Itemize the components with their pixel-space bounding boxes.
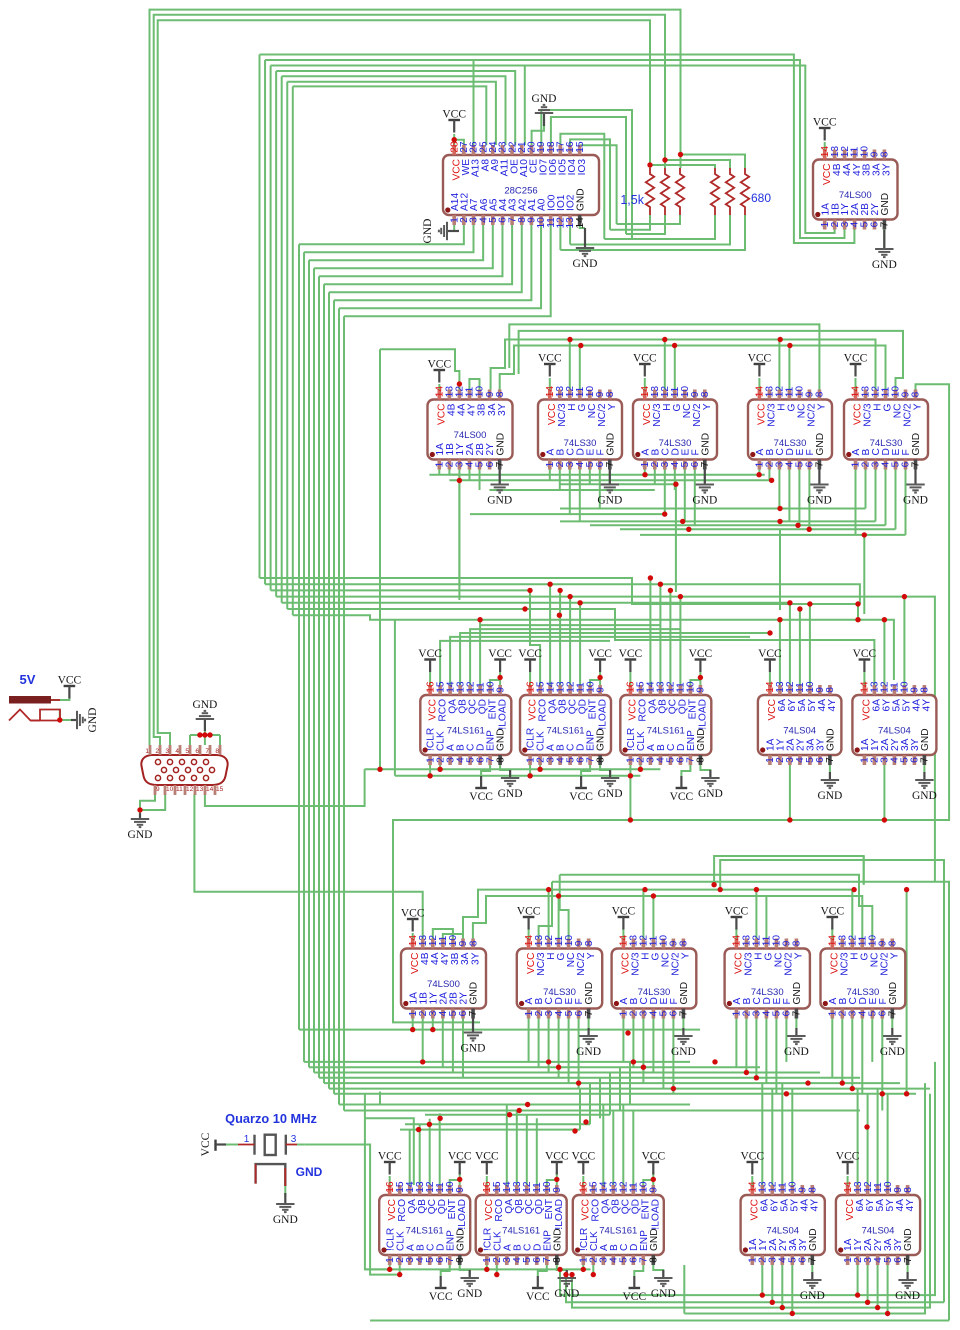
wire long vertical x380 (379, 349, 381, 769)
svg-text:9: 9 (455, 1187, 466, 1193)
wire VCC U10 pin16 (629, 672, 631, 685)
junction (648, 575, 653, 580)
junction (882, 617, 887, 622)
wire LS30 input drop (788, 470, 790, 522)
GND symbol below U14 (576, 1028, 601, 1058)
wire VCC to crystal pin1 (226, 1144, 238, 1146)
wire H branch (778, 340, 780, 390)
junction (662, 157, 667, 162)
wire pin7 to GND (499, 470, 501, 485)
GND symbol below U3 (487, 470, 512, 507)
wire bus line 7 (293, 615, 894, 680)
GND symbol below 161 (554, 1270, 579, 1300)
wire ROM pin7 cascade (324, 225, 512, 284)
junction (507, 1112, 512, 1117)
wire LS30 input drop (549, 470, 551, 481)
svg-text:VCC: VCC (448, 1151, 472, 1163)
junction (202, 732, 207, 737)
wire LS30 input drop (735, 1019, 737, 1068)
svg-text:VCC: VCC (619, 648, 643, 660)
junction (387, 1267, 392, 1272)
VCC symbol U11 (758, 648, 782, 672)
wire bundle vertical (264, 60, 266, 584)
svg-text:GND: GND (696, 728, 707, 751)
junction (672, 343, 677, 348)
junction (662, 511, 667, 516)
svg-text:74LS04: 74LS04 (862, 1226, 895, 1237)
wire LS30 input drop (765, 1019, 767, 1084)
junction (767, 630, 772, 635)
svg-text:8: 8 (825, 687, 836, 693)
junction (57, 717, 62, 722)
wire LS30 input drop (672, 1019, 674, 1094)
junction (882, 817, 887, 822)
wire ENP to VCC (441, 1265, 450, 1276)
wire VCC U9 pin9 (599, 672, 601, 685)
connector DB15 (141, 745, 227, 795)
junction (576, 1080, 581, 1085)
wire weave (640, 534, 906, 536)
svg-text:!LOAD: !LOAD (698, 699, 709, 730)
svg-text:GND: GND (903, 1228, 914, 1251)
svg-text:3Y: 3Y (470, 952, 481, 965)
wire CLK drop (439, 765, 441, 769)
wire U3 pin2 loop (449, 460, 459, 481)
GND symbol at 5V jack (71, 708, 99, 733)
resistor R3 (676, 168, 684, 215)
svg-text:74LS04: 74LS04 (783, 726, 816, 737)
wire LS30 input drop (885, 470, 887, 526)
wire (589, 1083, 591, 1124)
svg-text:VCC: VCC (378, 1151, 402, 1163)
svg-text:15: 15 (575, 141, 586, 153)
wire LS30 input drop (538, 1019, 540, 1068)
wire to U18 pin10 (450, 1180, 460, 1185)
wire ROM pin4 cascade (309, 225, 483, 260)
VCC symbol at U2 (813, 117, 837, 141)
GND symbol below U7 (903, 470, 928, 507)
junction (855, 1292, 860, 1297)
wire R2 bottom (626, 215, 665, 234)
junction (851, 887, 856, 892)
wire LS30 input drop (599, 470, 601, 509)
IC 74LS30 NAND gate 8 (821, 935, 906, 1019)
svg-text:GND: GND (128, 829, 153, 841)
svg-text:Quarzo 10 MHz: Quarzo 10 MHz (225, 1111, 317, 1126)
junction (581, 1267, 586, 1272)
junction (668, 588, 673, 593)
wire G bus (500, 346, 886, 390)
wire LS30 input drop (871, 1019, 873, 1062)
svg-text:8: 8 (495, 391, 506, 397)
svg-text:74LS161: 74LS161 (406, 1226, 444, 1237)
wire (599, 1078, 601, 1119)
junction (641, 1065, 646, 1070)
wire G branch (788, 346, 790, 390)
junction (850, 1086, 855, 1091)
wire ROM pin8 cascade (329, 225, 522, 292)
GND symbol above DB15 (192, 699, 217, 731)
junction (572, 1128, 577, 1133)
junction (784, 1091, 789, 1096)
VCC symbol U20 pin16 (571, 1151, 595, 1175)
svg-text:GND: GND (872, 259, 897, 271)
VCC symbol U18 pin16 (378, 1151, 402, 1175)
wire pin7 to GND (915, 470, 917, 485)
wire fan U8 QB (460, 633, 770, 685)
wire VCC to U2 pin14 (824, 142, 826, 150)
svg-text:VCC: VCC (740, 1151, 764, 1163)
wire NC2 bus upper (519, 331, 903, 390)
wire LS30 input drop (768, 470, 770, 481)
VCC symbol U9 pin9 (588, 648, 612, 672)
wire U13 pin5 (452, 1019, 454, 1073)
wire U13 pin4 (442, 1019, 444, 1068)
wire pin7 to GND (818, 470, 820, 485)
junction (522, 606, 527, 611)
wire to U19 pin10 (547, 1180, 557, 1185)
svg-text:GND: GND (422, 219, 434, 244)
VCC symbol at U3 (427, 359, 451, 383)
VCC symbol U20 pin9 (641, 1151, 665, 1175)
wire DB15 pin13 to U13 (194, 794, 422, 939)
wire (59, 710, 61, 720)
svg-text:Y: Y (913, 403, 924, 410)
svg-text:VCC: VCC (538, 353, 562, 365)
wire U22 2Y (877, 1265, 879, 1308)
wire (399, 1265, 401, 1275)
wire ROM pin10 cascade (339, 225, 541, 308)
wire (619, 1067, 621, 1110)
VCC symbol U8 pin9 (488, 648, 512, 672)
wire lower H bus (463, 890, 852, 939)
wire drop U19 (536, 1118, 538, 1185)
svg-text:GND: GND (273, 1214, 298, 1226)
junction (904, 1091, 909, 1096)
wire bus line 5 (282, 603, 790, 685)
svg-text:1: 1 (244, 1134, 250, 1145)
svg-text:7: 7 (903, 1257, 914, 1263)
GND symbol below 161 (598, 770, 623, 800)
junction (457, 381, 462, 386)
wire lower bus 3 left end (560, 875, 569, 939)
svg-text:74LS30: 74LS30 (564, 438, 597, 449)
svg-text:Y: Y (607, 403, 618, 410)
svg-text:VCC: VCC (836, 1151, 860, 1163)
junction (777, 506, 782, 511)
IC 74LS30 NAND gate 4 (844, 386, 928, 470)
wire weave (620, 528, 896, 530)
wire drop U19 (506, 1105, 508, 1186)
wire bus line to 74LS00 pin2 (271, 66, 835, 234)
IC 74LS30 NAND gate 5 (517, 935, 602, 1019)
junction (642, 472, 647, 477)
svg-text:GND: GND (596, 728, 607, 751)
wire jack sleeve to GND (60, 719, 72, 721)
svg-text:GND: GND (880, 1046, 905, 1058)
wire (389, 1265, 391, 1269)
svg-text:8: 8 (792, 940, 803, 946)
junction (563, 1272, 568, 1277)
svg-text:7: 7 (605, 461, 616, 467)
svg-text:9: 9 (495, 687, 506, 693)
junction (718, 887, 723, 892)
wire (683, 1265, 685, 1314)
svg-text:9: 9 (156, 786, 160, 793)
svg-text:7: 7 (825, 757, 836, 763)
wire ROM pin2 cascade (299, 225, 464, 244)
svg-text:8: 8 (649, 1257, 660, 1263)
svg-text:3: 3 (165, 748, 169, 755)
svg-text:7: 7 (495, 461, 506, 467)
wire weave (560, 508, 866, 510)
wire branch to ROM pin26 (473, 60, 475, 145)
svg-text:GND: GND (605, 433, 616, 456)
junction (546, 887, 551, 892)
junction (638, 767, 643, 772)
svg-text:1,5k: 1,5k (620, 193, 644, 207)
svg-text:GND: GND (532, 93, 557, 105)
VCC symbol at 28C256 (442, 109, 466, 133)
svg-text:GND: GND (808, 1228, 819, 1251)
wire weave low (324, 1082, 900, 1084)
IC 74LS161 counter 4 (379, 1181, 470, 1265)
svg-text:14: 14 (206, 786, 214, 793)
junction (554, 1177, 559, 1182)
junction (855, 617, 860, 622)
svg-text:Y: Y (702, 403, 713, 410)
wire VCC U19 pin9 (556, 1172, 558, 1185)
svg-text:8: 8 (808, 1187, 819, 1193)
junction (427, 1122, 432, 1127)
wire bus line to ROM pin22 (276, 71, 515, 145)
wire LS30 input drop (865, 470, 867, 509)
svg-text:!LOAD: !LOAD (597, 699, 608, 730)
wire U11 1Y down (789, 765, 791, 820)
wire weave low (334, 1093, 916, 1095)
svg-text:4Y: 4Y (922, 699, 933, 712)
junction (778, 337, 783, 342)
wire bus line 1 (260, 578, 859, 620)
svg-text:VCC: VCC (571, 1151, 595, 1163)
wire LS30 input drop (674, 470, 676, 491)
junction (537, 767, 542, 772)
wire LS30 input drop (831, 1019, 833, 1078)
wire bottom loop 2 (566, 1275, 944, 1303)
VCC symbol below 161 (670, 776, 694, 803)
VCC symbol below 161 (429, 1276, 453, 1303)
wire VCC to LS30 pin14 (644, 378, 646, 390)
wire LS30 input drop (559, 470, 561, 491)
junction (430, 1027, 435, 1032)
wire R5 bottom (570, 215, 730, 245)
wire VCC to LS30 pin14 (622, 927, 624, 939)
junction (840, 1080, 845, 1085)
svg-text:GND: GND (192, 699, 217, 711)
wire bus line to ROM pin24 (287, 82, 496, 145)
svg-text:4Y: 4Y (810, 1199, 821, 1212)
wire U21 top up (771, 1089, 773, 1185)
svg-text:7: 7 (880, 221, 891, 227)
svg-text:8: 8 (605, 391, 616, 397)
wire (486, 1265, 488, 1269)
svg-text:4: 4 (175, 748, 179, 755)
junction (754, 887, 759, 892)
wire LS30 input drop (841, 1019, 843, 1084)
junction (577, 600, 582, 605)
IC 74LS161 counter 3 (620, 681, 711, 765)
svg-text:VCC: VCC (612, 906, 636, 918)
wire ROM pin14 to GND (580, 225, 585, 228)
wire DB15 gnd bus (190, 734, 220, 736)
wire bottom loop 4 (684, 1083, 925, 1313)
wire VCC U19 pin16 (486, 1176, 488, 1185)
junction (864, 1124, 869, 1129)
wire VCC U20 pin16 (582, 1176, 584, 1185)
junction (760, 1292, 765, 1297)
IC 74LS04 hex inverter 1 (758, 681, 842, 765)
junction (673, 482, 678, 487)
wire U21 2Y (781, 1265, 783, 1308)
GND symbol below U12 (912, 772, 937, 802)
svg-text:!LOAD: !LOAD (651, 1199, 662, 1230)
wire to U8 pin10 (490, 680, 500, 685)
wire bus drop U9 (549, 584, 551, 685)
svg-text:7: 7 (792, 1010, 803, 1016)
junction (557, 588, 562, 593)
wire U11 GND (829, 765, 831, 772)
IC 74LS00 quad NAND (middle band) (428, 386, 513, 470)
junction (795, 523, 800, 528)
wire G branch (674, 346, 676, 390)
IC 28C256 EEPROM (443, 141, 599, 228)
wire pin7 to GND (588, 1019, 590, 1029)
svg-text:9: 9 (649, 1187, 660, 1193)
wire fan U8 RCO (440, 641, 610, 685)
svg-text:10: 10 (166, 786, 174, 793)
GND symbol below U13 (461, 1019, 486, 1055)
VCC symbol U21 (740, 1151, 764, 1175)
wire VCC to ROM pin28 (453, 134, 455, 145)
wire weave low (304, 1061, 690, 1063)
wire VCC to LS30 pin14 (831, 927, 833, 939)
svg-text:GND: GND (554, 1288, 579, 1300)
wire (582, 1265, 584, 1269)
junction (790, 1311, 795, 1316)
crystal Quarzo 10 MHz (238, 1135, 297, 1186)
GND symbol below 161 (457, 1270, 482, 1300)
wire R4 bottom (604, 215, 715, 239)
svg-text:8: 8 (700, 391, 711, 397)
wire LS30 input drop (568, 1019, 570, 1084)
GND symbol at ROM pin1 (422, 219, 459, 244)
IC 74LS161 counter 5 (476, 1181, 567, 1265)
wire U2 pin7 to GND (883, 230, 885, 249)
svg-text:GND: GND (692, 495, 717, 507)
wire net A1 / R2 to DB15 pin2 (154, 15, 665, 745)
wire !CLR bus (395, 775, 641, 777)
svg-text:7: 7 (808, 1257, 819, 1263)
svg-text:4Y: 4Y (905, 1199, 916, 1212)
wire LS30 input drop (694, 470, 696, 526)
wire LS30 input drop (589, 470, 591, 485)
svg-text:3Y: 3Y (497, 403, 508, 416)
wire drop U20 (622, 1105, 624, 1186)
junction (777, 617, 782, 622)
wire bus drop U10 (669, 590, 671, 685)
svg-text:9: 9 (595, 687, 606, 693)
wire LS30 input drop (745, 1019, 747, 1073)
svg-text:VCC: VCC (58, 675, 82, 687)
svg-text:8: 8 (911, 391, 922, 397)
VCC symbol below 161 (469, 776, 493, 803)
VCC symbol at 5V jack (58, 675, 82, 699)
junction (137, 807, 142, 812)
GND symbol below 161 (651, 1270, 676, 1300)
junction (880, 1091, 885, 1096)
svg-text:GND: GND (461, 1043, 486, 1055)
svg-text:13: 13 (196, 786, 204, 793)
junction (625, 1030, 630, 1035)
wire bus line to ROM pin23 (282, 76, 506, 145)
svg-text:GND: GND (679, 982, 690, 1005)
wire VCC U8 pin9 (499, 672, 501, 685)
wire ROM pin1 to GND (447, 225, 454, 231)
svg-text:GND: GND (469, 982, 480, 1005)
svg-text:5: 5 (185, 748, 189, 755)
wire lower bus 4 left end (539, 882, 552, 939)
GND symbol below U17 (880, 1028, 905, 1058)
junction (437, 1116, 442, 1121)
VCC symbol below 161 (569, 776, 593, 803)
wire pin7 to GND (891, 1019, 893, 1029)
wire VCC U11 pin14 (769, 672, 771, 685)
wire H bus (491, 340, 876, 390)
wire U22 GND (907, 1265, 909, 1272)
wire drop U20 (632, 1111, 634, 1186)
GND symbol below ROM pin14 (573, 228, 598, 270)
junction (686, 527, 691, 532)
junction (477, 617, 482, 622)
wire branch U10 pin1 (629, 776, 631, 820)
svg-text:GND: GND (800, 1290, 825, 1302)
wire U21 GND (811, 1265, 813, 1272)
VCC symbol U19 pin16 (475, 1151, 499, 1175)
wire bus drop U12 pin9 (903, 597, 905, 685)
wire down (458, 481, 460, 587)
wire CLR drop (529, 765, 531, 776)
svg-text:VCC: VCC (517, 906, 541, 918)
svg-text:IO3: IO3 (577, 159, 588, 176)
svg-text:74LS30: 74LS30 (659, 438, 692, 449)
svg-text:VCC: VCC (820, 906, 844, 918)
wire U22 top up (877, 1089, 879, 1185)
wire weave low (329, 1088, 930, 1090)
junction (567, 594, 572, 599)
wire CLK drop (639, 765, 641, 769)
junction (527, 588, 532, 593)
wire cascade vertical (323, 284, 325, 1083)
wire GND jog (600, 765, 610, 776)
svg-text:6: 6 (195, 748, 199, 755)
svg-text:7: 7 (679, 1010, 690, 1016)
wire VCC to LS30 pin14 (735, 927, 737, 939)
junction (546, 1059, 551, 1064)
junction (678, 594, 683, 599)
GND symbol below 161 (698, 770, 723, 800)
wire LS30 input drop (579, 470, 581, 522)
wire bus drop U10 (659, 584, 661, 685)
